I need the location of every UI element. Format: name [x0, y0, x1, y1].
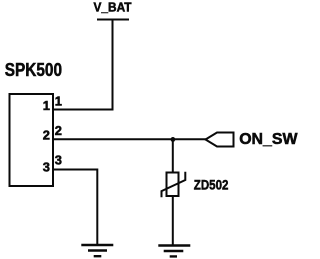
svg-text:ON_SW: ON_SW: [239, 131, 298, 148]
svg-text:1: 1: [55, 93, 62, 108]
ground (pin 3 net): [81, 245, 113, 256]
pin 2: [43, 123, 62, 143]
power symbol V_BAT: [94, 0, 132, 20]
ground (ZD502 net): [158, 246, 190, 257]
pin 3: [43, 152, 62, 174]
svg-text:2: 2: [55, 123, 62, 138]
svg-text:3: 3: [55, 152, 62, 167]
connector SPK500 body: [10, 94, 54, 186]
svg-text:SPK500: SPK500: [5, 59, 62, 80]
pin 1: [43, 93, 62, 113]
off-page connector ON_SW: [206, 131, 299, 148]
svg-text:3: 3: [43, 160, 50, 175]
wire ZD502 to ground: [172, 196, 174, 246]
label SPK500: [5, 59, 62, 80]
svg-text:ZD502: ZD502: [194, 178, 229, 194]
wire pin 2 to ON_SW: [53, 138, 206, 140]
varistor ZD502: [162, 172, 229, 198]
wire V_BAT to pin 1: [53, 20, 113, 110]
svg-text:2: 2: [43, 128, 50, 143]
wire junction to ZD502: [172, 139, 174, 172]
junction node on pin 2 net: [171, 137, 176, 142]
wire pin 3 to ground: [53, 170, 97, 246]
svg-text:V_BAT: V_BAT: [94, 0, 132, 15]
svg-text:1: 1: [43, 98, 50, 113]
